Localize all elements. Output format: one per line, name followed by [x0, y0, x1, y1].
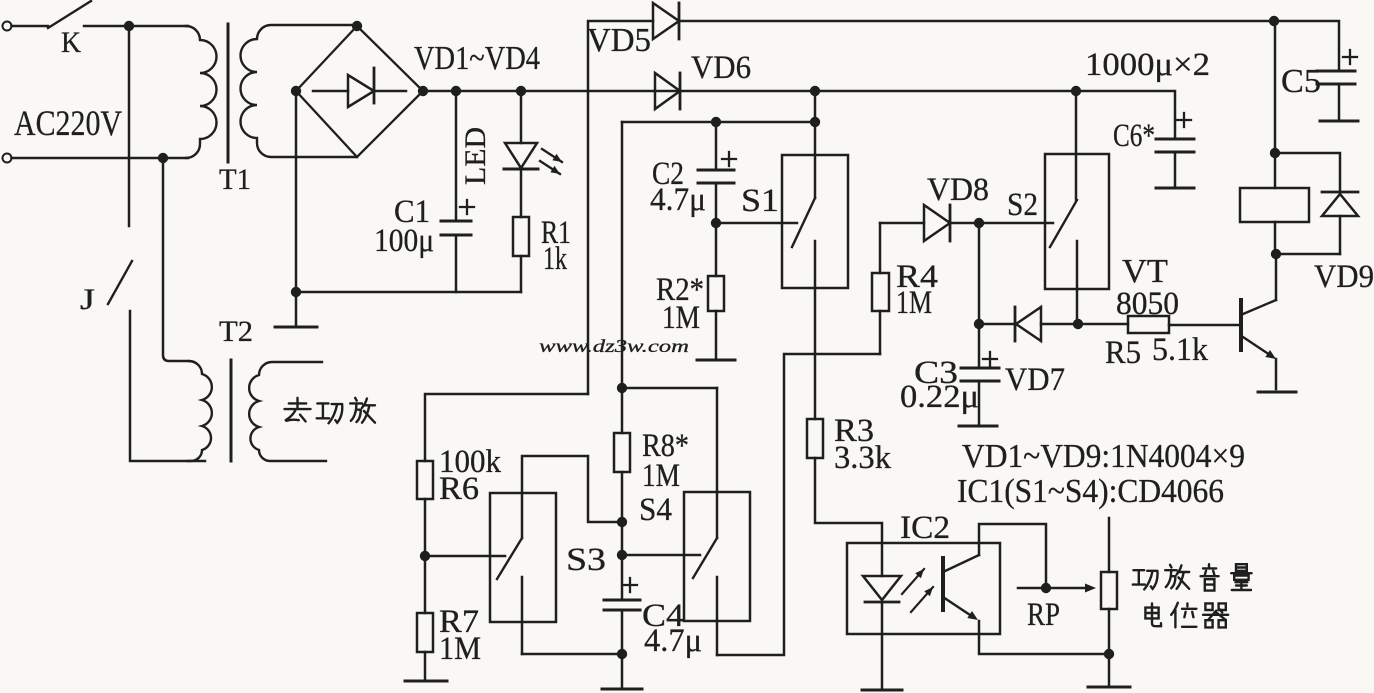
wire — [979, 323, 1015, 326]
svg-text:1000μ×2: 1000μ×2 — [1085, 47, 1210, 83]
capacitor C6* — [1156, 113, 1194, 186]
resistor R8* — [614, 388, 630, 600]
label C5 — [1281, 63, 1321, 100]
svg-text:J: J — [80, 283, 95, 316]
wire: S4 top contact — [716, 388, 719, 538]
analog switch S4 box — [684, 492, 750, 621]
svg-text:VT: VT — [1122, 253, 1168, 290]
label R8* — [642, 428, 689, 464]
node: S4 input join — [617, 550, 627, 560]
svg-text:K: K — [61, 26, 81, 59]
label S3 — [566, 542, 606, 578]
label 3.3k — [834, 440, 891, 476]
wire — [296, 291, 521, 294]
label 100k — [439, 444, 501, 480]
label VD6 — [691, 50, 751, 86]
label 0.22u — [900, 379, 979, 415]
node: S3 output join — [617, 649, 627, 659]
node: VD8 cathode — [974, 218, 984, 228]
node: relay top — [1270, 148, 1280, 158]
S4 arm and lower contact — [693, 538, 717, 655]
node: S3 top join — [617, 517, 627, 527]
resistor R3 — [807, 419, 882, 576]
label IC2 — [900, 510, 950, 546]
label S1 — [741, 183, 779, 219]
node: C2 bottom / S1 input — [711, 218, 721, 228]
watermark — [539, 336, 689, 356]
wire — [12, 25, 49, 28]
ground under C3 — [959, 425, 997, 428]
svg-text:AC220V: AC220V — [14, 103, 122, 143]
resistor R6 — [417, 461, 433, 556]
transformer T1 secondary winding — [241, 25, 358, 157]
wire: relay supply — [1274, 21, 1277, 188]
bridge inner diode symbol — [313, 68, 406, 107]
label R7 — [439, 604, 479, 640]
label VT — [1122, 253, 1168, 290]
ground under C6 — [1156, 187, 1194, 190]
svg-text:VD7: VD7 — [1005, 362, 1065, 398]
wire: main rectified rail — [423, 91, 1175, 139]
diode VD5 — [653, 3, 679, 39]
node: VT base node — [1073, 319, 1083, 329]
wire: R4 to S4 output — [717, 354, 880, 655]
label C4 — [642, 598, 684, 634]
label K — [61, 26, 81, 59]
transformer T2 primary winding — [188, 361, 212, 461]
S2 contacts and arm — [1050, 91, 1077, 324]
label C4 4.7u — [644, 623, 702, 659]
note VD1~VD9 — [962, 438, 1245, 475]
wire to VD9 — [1275, 153, 1340, 192]
note IC1 — [957, 473, 1224, 510]
wire — [1078, 323, 1128, 326]
node: R6/R7 divider — [420, 551, 430, 561]
label T1 — [219, 163, 251, 196]
bridge rectifier VD1~VD4 diamond — [296, 26, 423, 157]
svg-text:5.1k: 5.1k — [1152, 332, 1208, 368]
node: bridge right vertex — [418, 86, 428, 96]
svg-text:1k: 1k — [543, 241, 567, 277]
node: bridge left vertex — [291, 86, 301, 96]
label RP — [1027, 597, 1060, 633]
wire: top supply rail — [679, 21, 1339, 71]
label 功放音量 — [1133, 564, 1252, 590]
transformer T1 core — [227, 24, 230, 162]
node S2 tap — [1071, 86, 1081, 96]
IC2 phototransistor — [943, 524, 1109, 654]
node: C2 top — [711, 117, 721, 127]
capacitor C5 — [1317, 50, 1357, 119]
label 8050 — [1116, 286, 1179, 322]
label VD1~VD4 — [414, 40, 540, 77]
wire — [978, 223, 981, 324]
svg-text:LED: LED — [459, 127, 492, 185]
svg-text:1M: 1M — [662, 300, 700, 336]
svg-text:VD1~VD9:1N4004×9: VD1~VD9:1N4004×9 — [962, 438, 1245, 475]
label R2 1M — [662, 300, 700, 336]
label R7 1M — [439, 631, 481, 667]
wire — [1276, 253, 1340, 256]
diode VD7 — [1015, 307, 1041, 341]
ground under VT emitter — [1258, 391, 1296, 394]
wire — [163, 158, 188, 361]
label S2 — [1007, 187, 1038, 223]
svg-text:T2: T2 — [219, 315, 253, 348]
IC2 light arrows — [902, 569, 933, 612]
capacitor C4 — [604, 578, 640, 687]
svg-text:R5: R5 — [1105, 335, 1141, 371]
wire — [622, 387, 717, 390]
label R8 1M — [642, 458, 680, 494]
label R6 — [439, 471, 479, 507]
wire — [522, 653, 622, 656]
node: collector junction — [1271, 249, 1281, 259]
svg-text:1M: 1M — [439, 631, 481, 667]
potentiometer body — [1101, 518, 1117, 685]
node: S1 top branch — [810, 117, 820, 127]
resistor R5 — [1128, 316, 1169, 333]
label R4 — [896, 259, 938, 295]
analog switch S3 box — [490, 493, 556, 622]
label 电位器 — [1145, 603, 1228, 628]
LED indicator — [504, 91, 538, 217]
label 5.1k — [1152, 332, 1208, 368]
node: R8 top — [617, 383, 627, 393]
svg-text:T1: T1 — [219, 163, 251, 196]
label VD9 — [1314, 259, 1374, 295]
svg-text:4.7μ: 4.7μ — [644, 623, 702, 659]
label LED (vertical) — [459, 127, 492, 185]
svg-text:4.7μ: 4.7μ — [650, 182, 706, 218]
diode VD8 — [924, 205, 950, 241]
svg-text:S1: S1 — [741, 183, 779, 219]
node: relay supply tap — [1269, 16, 1279, 26]
svg-text:100μ: 100μ — [374, 223, 434, 259]
analog switch S1 box — [782, 155, 848, 288]
label C3 — [914, 355, 958, 391]
label AC220V — [14, 103, 122, 143]
label C1 — [394, 194, 430, 230]
label C2 — [652, 156, 684, 192]
ground — [275, 326, 317, 329]
svg-text:C5: C5 — [1281, 63, 1321, 100]
wire: VD5 to R6 — [425, 394, 588, 461]
wire — [950, 222, 1053, 225]
ground under potentiometer — [1088, 686, 1130, 689]
capacitor C1 — [441, 91, 474, 292]
wire — [130, 311, 205, 461]
S1 arm and lower contact — [792, 198, 815, 419]
wire: S1 branch down — [621, 122, 624, 388]
svg-text:VD6: VD6 — [691, 50, 751, 86]
label R1 — [541, 215, 571, 251]
ground under IC2 LED — [862, 689, 902, 692]
svg-text:IC1(S1~S4):CD4066: IC1(S1~S4):CD4066 — [957, 473, 1224, 510]
wire: S1 input — [716, 222, 797, 225]
svg-text:VD8: VD8 — [927, 172, 989, 208]
svg-text:VD5: VD5 — [587, 22, 651, 59]
switch J blade — [108, 261, 132, 304]
wire — [880, 222, 924, 225]
svg-text:3.3k: 3.3k — [834, 440, 891, 476]
svg-text:S4: S4 — [639, 492, 672, 528]
wire — [1274, 222, 1277, 254]
label R3 — [834, 413, 874, 449]
node: pot bottom — [1104, 649, 1114, 659]
switch K blade — [48, 1, 91, 28]
capacitor C2 — [698, 122, 736, 223]
wiper arrow RP — [1018, 584, 1096, 593]
optocoupler IC2 box — [847, 543, 1000, 634]
svg-text:0.22μ: 0.22μ — [900, 379, 979, 415]
wire: S4 input — [622, 554, 700, 557]
transformer T2 core — [230, 360, 233, 461]
transformer T1 primary winding — [186, 26, 217, 158]
resistor R7 — [417, 556, 433, 679]
wire — [12, 157, 189, 160]
node: K junction — [124, 21, 134, 31]
node: AC lower junction — [158, 153, 168, 163]
svg-text:R6: R6 — [439, 471, 479, 507]
node: RP wiper — [1041, 583, 1051, 593]
resistor R1 — [513, 217, 529, 292]
diode VD6 — [655, 73, 680, 109]
label J — [80, 283, 95, 316]
label VD8 — [927, 172, 989, 208]
wire: VD5 anode riser — [588, 21, 653, 394]
wire: rail to S1 — [814, 91, 817, 198]
svg-text:VD9: VD9 — [1314, 259, 1374, 295]
node: negative rail junction — [291, 287, 301, 297]
label C6* — [1113, 118, 1155, 154]
transformer T2 secondary winding — [249, 362, 326, 461]
svg-text:1M: 1M — [896, 285, 932, 321]
label R2* — [656, 272, 704, 308]
svg-text:1M: 1M — [642, 458, 680, 494]
label S4 — [639, 492, 672, 528]
svg-text:RP: RP — [1027, 597, 1060, 633]
diode VD9 — [1322, 192, 1358, 216]
ground under R2 — [697, 359, 735, 362]
resistor R4 — [872, 223, 889, 354]
svg-text:S3: S3 — [566, 542, 606, 578]
label R4 1M — [896, 285, 932, 321]
node C1 tap — [451, 86, 461, 96]
wire — [295, 292, 298, 325]
capacitor C3 — [961, 324, 999, 424]
transistor VT — [1169, 254, 1276, 389]
wire — [84, 25, 188, 28]
label 去功放 — [284, 398, 375, 423]
wire: S3 input — [425, 555, 505, 558]
label 1000ux2 — [1085, 47, 1210, 83]
terminal: AC live input — [3, 22, 12, 31]
label 100u — [374, 223, 434, 259]
label T2 — [219, 315, 253, 348]
relay coil — [1240, 188, 1309, 222]
node: bridge top vertex — [352, 21, 362, 31]
ground under C4 — [602, 688, 642, 691]
label 1k — [543, 241, 567, 277]
label VD7 — [1005, 362, 1065, 398]
wire — [622, 121, 815, 124]
svg-text:VD1~VD4: VD1~VD4 — [414, 40, 540, 77]
svg-text:S2: S2 — [1007, 187, 1038, 223]
node LED tap — [516, 86, 526, 96]
svg-text:C6*: C6* — [1113, 118, 1155, 154]
ground under C5 — [1320, 120, 1358, 123]
wire — [295, 91, 298, 292]
resistor R2* — [708, 223, 724, 358]
terminal: AC neutral input — [3, 154, 12, 163]
node: C3 top — [974, 319, 984, 329]
label VD5 — [587, 22, 651, 59]
svg-text:IC2: IC2 — [900, 510, 950, 546]
wire — [1041, 323, 1078, 326]
wire — [1339, 216, 1342, 254]
LED light arrows — [540, 149, 562, 174]
label C2 4.7u — [650, 182, 706, 218]
svg-text:www.dz3w.com: www.dz3w.com — [539, 336, 689, 356]
wire — [128, 26, 131, 226]
IC2 LED — [863, 576, 901, 688]
ground under R7 — [405, 680, 447, 683]
S3 contacts and arm — [497, 456, 622, 654]
label R5 — [1105, 335, 1141, 371]
analog switch S2 box — [1045, 154, 1109, 289]
node S1 tap — [810, 86, 820, 96]
